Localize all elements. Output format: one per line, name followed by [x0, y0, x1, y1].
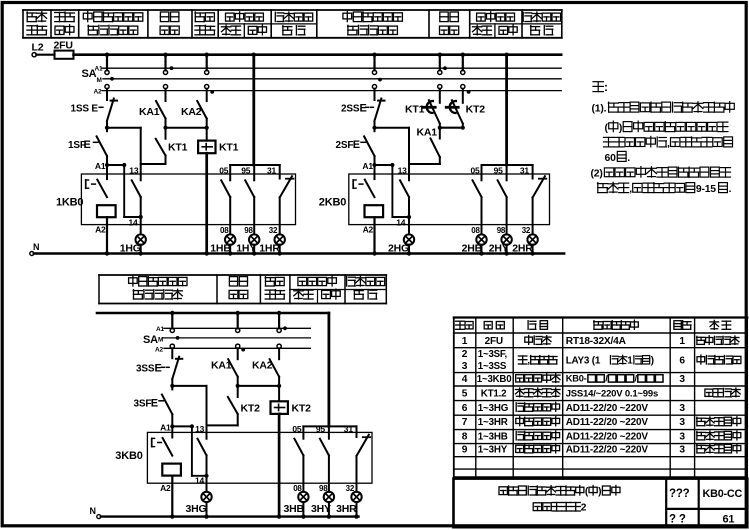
title text — [499, 487, 507, 495]
svg-text:95: 95 — [316, 424, 326, 434]
svg-text:5: 5 — [462, 388, 468, 399]
2KB0 self hold wire 14 — [391, 165, 393, 217]
svg-text:98: 98 — [244, 226, 253, 235]
svg-text:1~3HR: 1~3HR — [478, 417, 508, 428]
notes text — [593, 81, 603, 83]
svg-text:.: . — [729, 184, 732, 195]
mid header table grid — [99, 274, 386, 276]
svg-text:E: E — [151, 398, 158, 410]
SA row A2 pump3 — [164, 347, 310, 349]
header cell: power protection — [55, 12, 65, 14]
svg-text:14: 14 — [129, 217, 139, 227]
signal feed wire pump2 — [505, 55, 508, 165]
svg-text:2: 2 — [462, 349, 468, 360]
3KB0 self hold wire 14 — [191, 426, 193, 475]
wire KT1 coil to N — [205, 153, 208, 253]
svg-text:13: 13 — [129, 166, 139, 176]
svg-text:A1: A1 — [156, 326, 164, 333]
svg-text:14: 14 — [396, 217, 406, 227]
wire 13 column pump3 — [206, 386, 208, 439]
svg-text:KT1: KT1 — [219, 142, 239, 154]
svg-text:60: 60 — [605, 153, 617, 164]
node line 2SS to 13 — [375, 127, 410, 129]
svg-text:8: 8 — [462, 431, 468, 442]
mid header cell: local manual control — [129, 278, 138, 284]
svg-text:2SF: 2SF — [336, 140, 354, 151]
svg-text:05: 05 — [219, 166, 229, 176]
svg-text:1: 1 — [462, 336, 468, 347]
svg-text:4: 4 — [462, 374, 468, 385]
svg-text:N: N — [33, 242, 39, 252]
table header row — [456, 320, 465, 322]
SA contact column for KT2 delayed — [462, 55, 464, 71]
svg-text:3HR: 3HR — [336, 503, 357, 515]
wire KT2 contact to node 13 pump3 — [207, 424, 238, 426]
SA position row M — [103, 78, 561, 80]
svg-text:KA1: KA1 — [139, 106, 160, 118]
node line 1SS to 13 — [107, 127, 141, 129]
header cell: accident auto switch — [194, 12, 196, 22]
svg-text:1~3SF,: 1~3SF, — [478, 349, 508, 360]
SA contact column for 3SS — [171, 313, 173, 328]
svg-text:KA1: KA1 — [417, 126, 438, 138]
svg-text:7: 7 — [462, 417, 468, 428]
SA row A1 pump3 — [164, 327, 310, 329]
signal feed wire pump3 — [327, 313, 330, 426]
svg-text:A1: A1 — [160, 422, 171, 432]
svg-text:05: 05 — [471, 166, 481, 176]
svg-text:98: 98 — [497, 226, 506, 235]
svg-text:3SS: 3SS — [136, 364, 155, 375]
header cell: auxiliary signal 1 — [274, 12, 276, 21]
svg-text:M: M — [97, 77, 102, 84]
svg-text:31: 31 — [520, 166, 530, 176]
svg-text:N: N — [90, 506, 96, 516]
top header table grid — [23, 10, 562, 38]
node line KT1-KT2 — [440, 127, 463, 129]
svg-text:95: 95 — [241, 166, 251, 176]
svg-text:KT1: KT1 — [405, 104, 425, 116]
svg-text:,: , — [629, 184, 632, 195]
mid header cell: alarm signal — [298, 277, 307, 285]
SA contact column for 1SS — [106, 55, 108, 71]
svg-text:A2: A2 — [160, 483, 171, 493]
wire L2 to fuse — [36, 54, 54, 56]
svg-text:JSS14/~220V 0.1~99s: JSS14/~220V 0.1~99s — [566, 388, 658, 399]
1KB0 trip contact and coil — [106, 165, 108, 179]
signal bracket 05-95-31 pump1 — [230, 164, 280, 166]
svg-text:KA2: KA2 — [181, 106, 202, 118]
svg-text:AD11-22/20 ~220V: AD11-22/20 ~220V — [566, 431, 649, 442]
svg-text:KB0-: KB0- — [566, 373, 587, 383]
SA contact column for KA1 pump3 — [237, 313, 239, 328]
svg-text:08: 08 — [471, 226, 480, 235]
node line KA1-KA2 pump3 — [238, 385, 279, 387]
svg-text:A1: A1 — [362, 161, 373, 171]
wire 13 column pump2 — [408, 128, 410, 181]
svg-text:SA: SA — [143, 334, 158, 346]
supply bus pump3 — [97, 312, 329, 315]
header cell: water level control 1 — [160, 12, 168, 22]
svg-text:13: 13 — [398, 166, 408, 176]
svg-text:2: 2 — [581, 503, 587, 514]
svg-text:13: 13 — [195, 424, 205, 434]
mid header cell: auxiliary signal — [346, 277, 348, 286]
SA contact column for KA1 — [164, 55, 166, 71]
svg-text:KT1: KT1 — [168, 142, 188, 154]
header cell: local manual control 2 — [343, 13, 352, 19]
svg-text:2SS: 2SS — [341, 104, 360, 115]
svg-text:61: 61 — [723, 514, 735, 526]
svg-text:32: 32 — [522, 226, 531, 235]
header cell: water level control 2 — [440, 12, 448, 22]
header cell: auxiliary signal 2 — [522, 12, 524, 21]
svg-text:): ) — [651, 356, 654, 367]
svg-text:A2: A2 — [363, 225, 374, 235]
svg-text:31: 31 — [344, 424, 354, 434]
1KB0 self hold wire 14 — [123, 165, 125, 217]
svg-text:6: 6 — [462, 403, 468, 414]
svg-text:A2: A2 — [95, 225, 106, 235]
svg-text:9: 9 — [462, 444, 468, 455]
svg-text:? ?: ? ? — [669, 514, 686, 526]
svg-text:): ) — [598, 487, 601, 498]
component list table — [454, 318, 748, 478]
3KB0 trip contact and coil — [171, 426, 173, 437]
wire 13 column — [140, 128, 142, 181]
svg-text:AD11-22/20 ~220V: AD11-22/20 ~220V — [566, 403, 649, 414]
svg-text:3: 3 — [679, 417, 685, 428]
2KB0 trip contact and coil — [374, 165, 376, 179]
svg-text:3: 3 — [462, 361, 468, 372]
svg-text:L2: L2 — [32, 42, 44, 54]
wire KT2 coil to N — [278, 414, 281, 517]
svg-text:3SF: 3SF — [134, 399, 152, 410]
wire KA1 contact to node 13 pump2 — [409, 163, 440, 165]
svg-text:3: 3 — [679, 431, 685, 442]
svg-text:KT2: KT2 — [241, 403, 261, 415]
signal bracket 05-95-31 pump2 — [482, 164, 533, 166]
node line KA1-KA2 — [166, 127, 207, 129]
svg-text:.: . — [627, 153, 630, 164]
mid header cell: water level control — [229, 277, 237, 286]
SA position row A2 — [102, 90, 561, 92]
svg-text:14: 14 — [195, 476, 205, 486]
signal bracket 05-95-31 pump3 — [303, 425, 356, 427]
svg-text:AD11-22/20 ~220V: AD11-22/20 ~220V — [566, 417, 649, 428]
svg-text:3KB0: 3KB0 — [115, 450, 142, 462]
wire KT1 contact to node 13 — [141, 163, 166, 165]
SA position row A1 — [102, 67, 561, 69]
SA contact column for KA2 — [206, 55, 208, 71]
SA row M pump3 — [163, 337, 310, 339]
svg-text:1~3HG: 1~3HG — [478, 403, 509, 414]
header cell: alarm signal 1 — [226, 13, 235, 21]
svg-text:(2): (2) — [591, 169, 603, 180]
svg-text::: : — [604, 80, 608, 94]
svg-text:1~3HY: 1~3HY — [478, 444, 508, 455]
SA contact column for 2SS — [373, 55, 375, 71]
svg-text:,: , — [667, 138, 670, 149]
svg-text:): ) — [619, 123, 622, 134]
svg-text:A1: A1 — [95, 161, 106, 171]
svg-text:1: 1 — [627, 356, 633, 367]
svg-text:E: E — [84, 139, 91, 151]
svg-text:E: E — [360, 103, 367, 115]
svg-text:AD11-22/20 ~220V: AD11-22/20 ~220V — [566, 444, 649, 455]
svg-text:LAY3 (1: LAY3 (1 — [566, 356, 601, 367]
mid header cell: accident auto switch — [265, 277, 267, 286]
title block — [454, 479, 748, 528]
header cell: secondary power — [26, 12, 28, 22]
svg-text:08: 08 — [220, 226, 229, 235]
header cell: alarm signal 2 — [477, 13, 486, 21]
svg-text:9-15: 9-15 — [696, 184, 716, 195]
svg-text:32: 32 — [269, 226, 278, 235]
svg-text:1: 1 — [679, 336, 685, 347]
svg-text:95: 95 — [494, 166, 504, 176]
svg-text:A2: A2 — [155, 346, 163, 353]
SA contact column for KA2 pump3 — [278, 313, 280, 328]
svg-text:3: 3 — [679, 374, 685, 385]
svg-text:RT18-32X/4A: RT18-32X/4A — [566, 336, 627, 347]
svg-text:KT2: KT2 — [292, 403, 312, 415]
svg-text:3: 3 — [679, 403, 685, 414]
svg-text:???: ??? — [669, 488, 690, 500]
svg-text:1~3KB0: 1~3KB0 — [477, 374, 512, 385]
header cell: local manual control 1 — [83, 13, 92, 19]
svg-text:KT1.2: KT1.2 — [481, 388, 507, 399]
svg-text:3HB: 3HB — [284, 503, 305, 515]
svg-text:A2: A2 — [94, 88, 102, 95]
svg-text:2FU: 2FU — [485, 336, 503, 347]
svg-text:KT2: KT2 — [466, 104, 486, 116]
svg-text:2KB0: 2KB0 — [319, 197, 346, 209]
svg-text:1KB0: 1KB0 — [56, 197, 83, 209]
svg-text:E: E — [353, 139, 360, 151]
signal feed wire pump1 — [252, 55, 255, 165]
SA contact column for KT1 delayed — [439, 55, 441, 71]
svg-text:3HG: 3HG — [186, 503, 207, 515]
svg-text:KB0-CC: KB0-CC — [703, 488, 743, 500]
svg-text:31: 31 — [267, 166, 277, 176]
svg-text:3: 3 — [679, 444, 685, 455]
node line 3SS to 13 — [172, 385, 206, 387]
svg-text:1SS E: 1SS E — [71, 104, 99, 115]
svg-text:05: 05 — [292, 424, 302, 434]
top supply bus L2 — [74, 53, 562, 56]
svg-text:6: 6 — [679, 356, 685, 367]
svg-text:1~3SS: 1~3SS — [478, 361, 507, 372]
svg-text:E: E — [155, 363, 162, 375]
svg-text:1~3HB: 1~3HB — [478, 431, 508, 442]
svg-text:(1).: (1). — [592, 104, 607, 115]
